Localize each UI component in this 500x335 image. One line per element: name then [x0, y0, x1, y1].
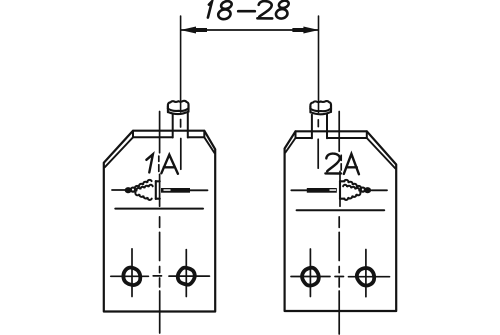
bolt body 1 [173, 113, 188, 137]
block 1A inner chamfer lines [105, 137, 215, 167]
contact bar 2 line [291, 189, 307, 191]
cone plug 1 lead line [112, 189, 128, 191]
bolt cap 2 [310, 101, 331, 114]
cone plug 2 coils [343, 180, 361, 200]
block 2A outline [285, 131, 397, 311]
block 2A internal line [297, 209, 385, 211]
left arrowhead [180, 27, 207, 34]
dimension line [181, 29, 318, 31]
contact bar 1 [161, 188, 190, 193]
bolt 2 centerline dash [317, 120, 319, 168]
hole 2 left [302, 268, 319, 286]
hole 1 right crosshair [169, 250, 209, 297]
contact bar 2 [307, 188, 337, 193]
cone plug 1 coils [135, 180, 153, 200]
right arrowhead [292, 27, 319, 34]
bolt body 2 [312, 114, 327, 139]
left extension line [180, 16, 182, 112]
block 1A plate bottom line [133, 131, 204, 138]
block 1A outline [104, 131, 215, 312]
contact bar 1 line [190, 189, 208, 191]
hole 1 left [123, 268, 140, 286]
bolt cap 1 [168, 101, 189, 114]
dimension text 18-28 [208, 0, 290, 20]
cone plug 2 tip [364, 187, 371, 193]
block 1A centerline [153, 112, 161, 334]
hole 1 right [178, 268, 195, 285]
bolt 1 centerline dash [180, 120, 182, 170]
cone plug 2 lead line [372, 189, 388, 191]
block 2A centerline [335, 112, 344, 335]
hole 2 left crosshair [291, 249, 330, 297]
label 1A [146, 154, 178, 174]
cone plug 1 tip [125, 187, 132, 193]
hole 2 right [357, 268, 374, 285]
label 2A [325, 154, 359, 175]
hole 2 right crosshair [349, 250, 390, 297]
cone plug 2 body [340, 181, 345, 199]
block 1A internal line [115, 208, 203, 210]
cone plug 1 body [156, 181, 160, 199]
hole 1 left crosshair [111, 249, 149, 297]
right extension line [318, 16, 320, 113]
block 2A inner chamfer lines [285, 138, 395, 169]
block 2A plate bottom line [296, 131, 367, 138]
